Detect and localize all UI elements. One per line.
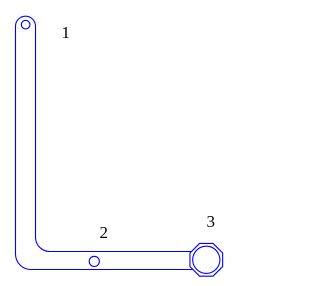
hole 1 (small circle in handle top): [21, 20, 30, 29]
ring head outer octagon: [190, 243, 223, 276]
wrench handle outline: [16, 16, 193, 269]
ring head inner circle: [193, 246, 220, 273]
label 1: [62, 24, 71, 41]
label 2: [100, 224, 109, 241]
label 3: [207, 213, 216, 230]
hole 2 (small circle in lower arm): [89, 256, 99, 266]
